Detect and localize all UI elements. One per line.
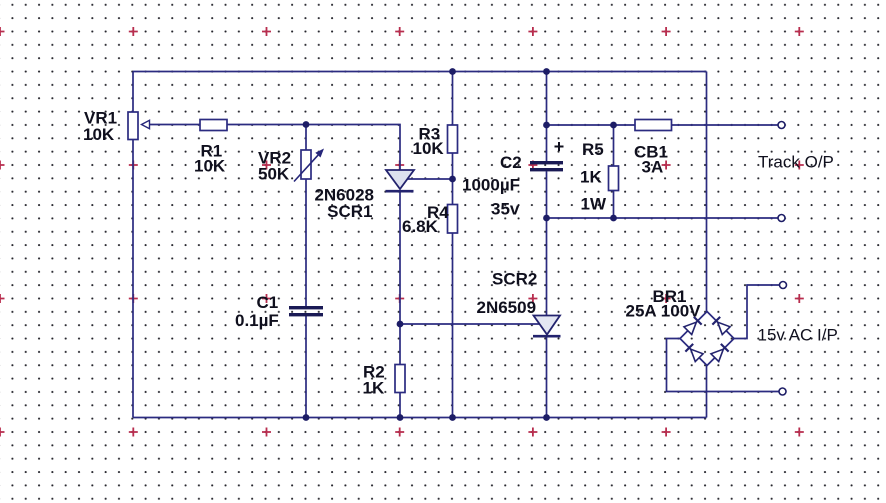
- node R5 bottom: [610, 215, 617, 222]
- terminal track output -: [778, 215, 785, 222]
- svg-text:2N6509: 2N6509: [477, 298, 537, 317]
- node C1 bottom: [303, 414, 310, 421]
- thyristor SCR2: [533, 316, 561, 337]
- svg-text:0.1µF: 0.1µF: [235, 311, 279, 330]
- svg-text:1K: 1K: [580, 167, 602, 186]
- svg-text:35v: 35v: [491, 199, 520, 218]
- svg-text:1K: 1K: [363, 378, 385, 397]
- svg-text:SCR1: SCR1: [327, 202, 372, 221]
- label 2N6028 SCR1: [314, 185, 374, 221]
- node VR2 top: [303, 121, 310, 128]
- node SCR1 gate junction: [449, 176, 456, 183]
- diode BR1 top-right: [712, 317, 730, 335]
- capacitor C2 polarized: [530, 142, 564, 171]
- svg-text:3A: 3A: [642, 157, 664, 176]
- node R2 bottom: [397, 414, 404, 421]
- svg-text:25A 100V: 25A 100V: [626, 301, 702, 320]
- svg-text:10K: 10K: [194, 157, 226, 176]
- resistor R5: [609, 166, 619, 191]
- wire top rail: [133, 71, 707, 73]
- terminal track output +: [778, 122, 785, 129]
- label VR2 50K: [258, 149, 291, 184]
- label R3 10K: [413, 124, 445, 158]
- label R1 10K: [194, 142, 226, 176]
- resistor R1: [200, 120, 227, 131]
- wire C2 SCR2 branch: [546, 72, 548, 418]
- diode BR1 top-left: [684, 317, 702, 335]
- diode BR1 bottom-left: [685, 344, 703, 362]
- svg-text:1000µF: 1000µF: [462, 175, 520, 194]
- wire VR1 wiper to R1: [149, 124, 200, 126]
- node track- junction: [543, 215, 550, 222]
- wire bridge - to bottom rail: [706, 366, 708, 418]
- svg-text:10K: 10K: [83, 125, 115, 144]
- circuit breaker CB1: [635, 120, 672, 131]
- node R3 top junction: [449, 68, 456, 75]
- node R4 bottom: [449, 414, 456, 421]
- label CB1 3A: [634, 142, 668, 176]
- wire SCR1 cathode through R2: [399, 191, 401, 418]
- wire SCR2 gate: [400, 323, 541, 325]
- resistor R3: [448, 125, 458, 153]
- node SCR2 bottom: [543, 414, 550, 421]
- svg-text:C1: C1: [257, 293, 279, 312]
- svg-text:R5: R5: [582, 140, 604, 159]
- wire track+ to CB1: [547, 124, 636, 126]
- bridge rectifier BR1: [680, 312, 734, 366]
- wire VR2 branch through C1: [305, 125, 307, 418]
- svg-text:50K: 50K: [258, 165, 290, 184]
- diode BR1 bottom-right: [711, 344, 729, 362]
- wire bridge AC top: [734, 285, 780, 339]
- svg-text:10K: 10K: [413, 139, 445, 158]
- svg-text:6.8K: 6.8K: [402, 217, 439, 236]
- wire left rail through VR1: [132, 72, 134, 418]
- svg-text:C2: C2: [500, 153, 522, 172]
- resistor R2: [395, 365, 405, 393]
- wire R5 leads: [613, 125, 615, 218]
- svg-text:Track O/P: Track O/P: [758, 152, 834, 171]
- wire SCR1 gate: [408, 178, 453, 180]
- label C2 1000uF 35v: [462, 153, 522, 219]
- node R5 top: [610, 122, 617, 129]
- wire bottom track output: [547, 217, 779, 219]
- wire CB1 to track output: [672, 124, 779, 126]
- wire right rail to bridge +: [706, 72, 708, 312]
- capacitor C1: [289, 306, 323, 316]
- svg-text:15v AC I/P: 15v AC I/P: [758, 325, 838, 344]
- wire bottom rail: [133, 417, 707, 419]
- label R5 1K 1W: [580, 140, 607, 214]
- label C1 0.1uF: [235, 293, 279, 330]
- PUT SCR1: [386, 170, 415, 191]
- terminal AC input top: [780, 282, 787, 289]
- variable resistor VR2: [294, 149, 324, 182]
- resistor R4: [448, 205, 458, 234]
- label VR1 10K: [83, 108, 117, 144]
- node track+ junction: [543, 122, 550, 129]
- wire bridge AC bottom: [667, 339, 780, 392]
- terminal AC input bottom: [779, 388, 786, 395]
- svg-text:1W: 1W: [581, 194, 607, 213]
- wire R1 to SCR1 anode: [227, 125, 400, 171]
- label BR1 25A 100V: [626, 287, 702, 321]
- potentiometer VR1: [128, 112, 150, 140]
- wire R3 R4 branch: [452, 72, 454, 418]
- svg-text:SCR2: SCR2: [492, 269, 537, 288]
- label SCR2 2N6509: [477, 269, 538, 317]
- node SCR2 gate junction: [397, 321, 404, 328]
- label R4 6.8K: [402, 203, 449, 236]
- node C2 top junction: [543, 68, 550, 75]
- label R2 1K: [363, 362, 385, 397]
